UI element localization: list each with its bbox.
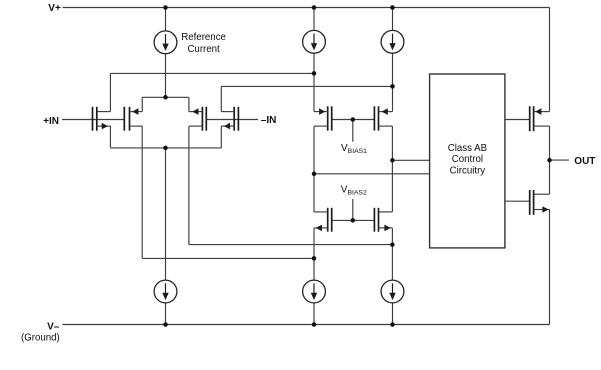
transistor: PMOS input +IN (inner left)	[124, 107, 142, 131]
wire: V- rail	[63, 324, 550, 326]
junction: V- / current source 6	[390, 322, 395, 327]
wire: V+ to current source 2	[313, 8, 315, 31]
junction: right summing node	[390, 84, 395, 89]
transistor: PMOS input -IN (inner right)	[189, 107, 206, 131]
junction: VBIAS1 gate node	[351, 117, 356, 122]
current source: top left bias	[303, 30, 326, 53]
wire: reference current source to PMOS pair tail	[165, 54, 167, 98]
transistor: output NMOS	[530, 190, 550, 215]
svg-text:VBIAS2: VBIAS2	[341, 184, 367, 196]
wire: PMOS +IN drain down	[141, 126, 143, 258]
wire: NMOS -IN source down	[220, 126, 222, 148]
svg-text:(Ground): (Ground)	[21, 332, 60, 343]
wire: right cascode drain column	[391, 126, 393, 212]
svg-text:V+: V+	[48, 3, 61, 14]
wire: PMOS +IN drain to cascode NMOS source node	[142, 257, 314, 259]
junction: V+ / current source 3	[390, 5, 395, 10]
wire: NMOS -IN drain up	[220, 86, 222, 111]
wire: VBIAS1 gate stub	[352, 120, 354, 142]
transistor: cascode NMOS left (VBIAS2)	[314, 208, 332, 232]
current source: reference current	[154, 31, 177, 54]
transistor: cascode NMOS right (VBIAS2)	[374, 208, 392, 232]
wire: NMOS input pair tail	[110, 147, 221, 149]
wire: NMOS +IN drain up	[109, 73, 111, 111]
wire: OUT stub	[550, 159, 569, 161]
junction: V+ / reference current	[163, 5, 168, 10]
wire: V+ rail	[63, 7, 550, 9]
transistor: NMOS input +IN (outer left)	[93, 107, 111, 131]
junction: VBIAS2 gate node	[351, 218, 356, 223]
wire: cascode NMOS left source down	[313, 228, 315, 280]
current source: bottom left bias	[303, 280, 326, 303]
junction: left cascode output node	[312, 172, 317, 177]
transistor: output PMOS	[530, 106, 550, 131]
wire: cascode NMOS right source down	[391, 228, 393, 280]
junction: left cascode source node	[312, 256, 317, 261]
wire: output node column	[549, 126, 551, 194]
current source: top right bias	[381, 30, 404, 53]
svg-text:V–: V–	[47, 322, 60, 333]
junction: right cascode source node	[390, 242, 395, 247]
wire: VBIAS2 right gate line	[353, 219, 375, 221]
wire: NMOS +IN drain to left summing node	[110, 72, 314, 74]
wire: current source 5 to V- rail	[313, 303, 315, 325]
junction: PMOS pair tail	[163, 95, 168, 100]
svg-text:ReferenceCurrent: ReferenceCurrent	[181, 32, 226, 55]
block: Class AB Control Circuitry box	[430, 74, 505, 248]
wire: left cascode output to Class AB box	[314, 173, 430, 175]
wire: NMOS -IN drain to right summing node	[221, 85, 392, 87]
wire: PMOS -IN drain down	[188, 126, 190, 245]
wire: VBIAS1 left gate line	[332, 119, 353, 121]
current source: bottom right bias	[381, 280, 404, 303]
junction: V- / tail current source	[163, 322, 168, 327]
wire: Class AB box to output NMOS gate	[505, 200, 530, 202]
svg-text:OUT: OUT	[574, 156, 595, 167]
junction: NMOS pair tail	[163, 146, 168, 151]
svg-text:VBIAS1: VBIAS1	[341, 143, 367, 155]
wire: +IN gate line	[62, 119, 124, 121]
junction: V+ / current source 2	[312, 5, 317, 10]
wire: VBIAS2 left gate line	[332, 219, 353, 221]
wire: tail current source to V- rail	[165, 303, 167, 325]
wire: VBIAS1 right gate line	[353, 119, 375, 121]
wire: VBIAS2 gate stub	[352, 199, 354, 221]
wire: current source 2 to cascode PMOS source	[313, 53, 315, 112]
wire: Class AB box to output PMOS gate	[505, 119, 530, 121]
junction: OUT node	[547, 158, 552, 163]
wire: V+ to reference current source	[165, 8, 167, 32]
wire: output NMOS source to V- rail	[549, 210, 551, 325]
wire: PMOS +IN source up	[141, 97, 143, 111]
junction: V- / current source 5	[312, 322, 317, 327]
svg-text:Class ABControlCircuitry: Class ABControlCircuitry	[448, 143, 487, 176]
wire: NMOS pair tail to tail current source	[165, 148, 167, 280]
wire: NMOS +IN source down	[109, 126, 111, 148]
transistor: cascode PMOS left (VBIAS1)	[314, 106, 332, 130]
wire: current source 3 to cascode PMOS source	[392, 53, 394, 112]
transistor: cascode PMOS right (VBIAS1)	[374, 106, 392, 130]
wire: PMOS -IN drain to cascode NMOS source node	[189, 244, 393, 246]
wire: PMOS input pair tail	[142, 96, 189, 98]
wire: -IN gate line	[206, 119, 258, 121]
svg-text:+IN: +IN	[43, 116, 59, 127]
wire: current source 6 to V- rail	[392, 303, 394, 325]
wire: PMOS -IN source up	[188, 97, 190, 111]
wire: V+ to current source 3	[392, 8, 394, 31]
svg-text:–IN: –IN	[261, 115, 277, 126]
transistor: NMOS input -IN (outer right)	[221, 107, 238, 131]
current source: input NMOS tail	[154, 280, 177, 303]
junction: right cascode output node	[390, 158, 395, 163]
wire: left cascode drain column	[313, 126, 315, 212]
junction: left summing node	[312, 71, 317, 76]
wire: right cascode output to Class AB box	[392, 159, 429, 161]
wire: V+ rail drop to output PMOS source	[549, 8, 551, 112]
